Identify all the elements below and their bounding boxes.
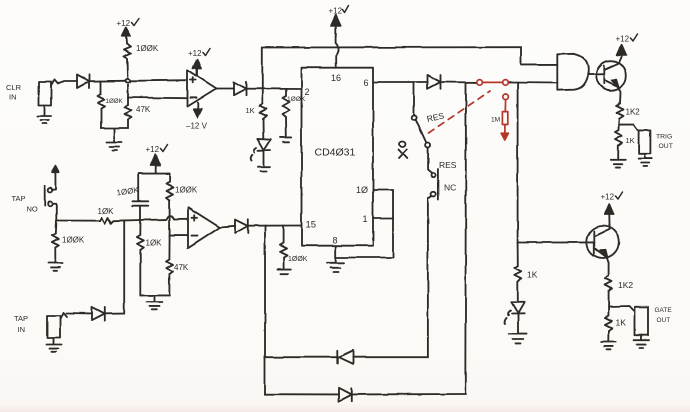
wire (divider bottom rail) [140,295,169,301]
op-amp U3 plus sign [192,215,198,221]
svg-text:2: 2 [305,87,310,97]
diode D3 [428,75,441,89]
svg-text:CD4Ø31: CD4Ø31 [315,147,356,159]
svg-text:CLR: CLR [6,83,22,92]
svg-text:+12: +12 [146,145,160,154]
red arrow (to ground/CV) [501,133,508,140]
wire (pin 6 to diode D3) [373,81,428,83]
ground (R5) [281,137,292,142]
op-amp U3 minus sign [192,235,198,237]
wire (Q2 base wire) [518,241,595,243]
svg-text:OUT: OUT [659,143,673,150]
diode D5 (points left) [337,350,353,364]
svg-text:+12: +12 [329,7,343,16]
wire (J1 to D1) [58,81,77,83]
wire (junction down to feedback diode D6 net) [464,82,467,394]
transistor Q2 [587,226,619,258]
jack J3 TRIG OUT [639,130,651,153]
op-amp U3 [188,207,220,248]
svg-text:IN: IN [18,325,26,334]
checkmark V (Q1 +12V) [631,34,638,41]
ground (J2) [47,338,62,352]
red wire (R17 down) [504,125,506,134]
diode D2 [234,82,247,95]
pushbutton SW2 RES NC [431,169,438,200]
ground (R7) [48,263,63,271]
ground (R15) [601,342,616,350]
svg-text:1K: 1K [626,136,635,145]
svg-text:47K: 47K [136,105,151,114]
diode D1 [77,75,90,89]
wire (SW1 to pushbutton SW2) [428,148,432,173]
resistor R6 100K (pin 15 net to gnd) [280,226,287,269]
ground (under J1) [38,105,52,124]
resistor R9 100K (rail to minus node) [166,174,173,236]
wire (node to GATE jack tip) [609,306,634,311]
resistor R11 10K (tap node to bottom rail) [137,220,144,295]
wire (Q1 emitter down) [618,86,621,103]
svg-text:1ØØK: 1ØØK [288,256,308,263]
svg-text:1ØØK: 1ØØK [175,186,198,195]
ground (divider) [147,302,163,310]
svg-text:+12: +12 [117,19,131,28]
+12V supply arrow (pin 16) [331,15,341,36]
ground (pin 8) [328,263,345,272]
svg-text:NO: NO [27,205,38,214]
pushbutton SW3 TAP NO [45,166,59,221]
resistor R15 1K (node to gnd) [605,307,612,342]
wire (long top wire to AND gate step) [262,46,521,48]
svg-text:15: 15 [306,220,317,231]
svg-text:OUT: OUT [657,317,671,324]
+12V supply arrow (divider rail) [151,154,160,173]
resistor R2 100K (node A to gnd rail) [98,81,105,128]
checkmark V (Q2 +12V) [616,192,623,199]
wire (pin 10 to joining vertical) [373,189,393,191]
svg-text:1ØØK: 1ØØK [136,44,159,53]
wire (U1 out to D2) [217,88,234,90]
AND gate U4 [557,54,588,90]
wire (D4 to IC pin 15) [248,225,302,227]
wire (node to long feedforward wire corner) [261,48,263,89]
resistor R7 100K (tap node to gnd) [52,221,59,263]
wire (minus input wire) [128,97,188,100]
checkmark V (U1 +12V) [203,49,210,56]
ground (J3) [638,154,652,167]
ground (J4) [635,335,649,348]
red switch contact circle (right) [503,80,509,86]
svg-text:+12: +12 [616,35,630,44]
svg-text:8: 8 [333,236,338,246]
wire (U3 minus input) [170,235,188,237]
resistor R10 47K (minus node to bottom rail) [166,236,173,296]
svg-text:1K2: 1K2 [618,280,633,290]
resistor R16 1K (Q2 base node to LED2) [514,243,521,302]
wire (Q1 collector riser) [619,48,622,64]
wire (gnd rail R2/R3) [101,128,128,141]
svg-text:1ØØK: 1ØØK [106,98,124,105]
-12V supply arrow (U1) [194,103,202,118]
wire (D1 to node A and opamp U1 +) [90,80,188,81]
transistor Q1 [596,61,626,91]
wire (C1 to tap wire node) [140,206,142,220]
jack J4 GATE OUT [635,307,648,335]
svg-text:1K: 1K [616,318,627,328]
svg-text:GATE: GATE [655,307,673,314]
wire (U3 out to D4) [220,226,235,227]
svg-text:1K2: 1K2 [626,108,641,117]
svg-text:1: 1 [363,214,368,224]
checkmark V (pin16 +12V) [343,6,349,13]
svg-text:RES: RES [439,160,457,170]
wire (node A down to minus wire and 47K) [127,85,129,98]
wire (pin 1 to joining vertical) [373,217,393,219]
no-connection stub X [399,141,407,159]
svg-text:IN: IN [9,93,17,102]
svg-text:1K: 1K [246,106,255,115]
wire (hop to U3 plus input) [174,218,188,220]
wire (Q2 collector riser) [608,212,611,229]
resistor R12 1K2 (Q1 emitter) [617,104,624,125]
wire (R8 to cap node, with junction to TAP IN) [114,220,167,221]
resistor R4 1K (node to LED1) [260,89,267,138]
LED LED1 [251,138,271,165]
svg-text:1ØØK: 1ØØK [287,96,306,103]
svg-text:1M: 1M [491,117,500,124]
+12V supply arrow (U1) [193,60,201,76]
IC U2 CD4031 body [302,68,374,246]
wire (feedback 2 horizontal) [265,393,465,395]
wire (Q2 emitter down) [607,257,609,276]
wire (D3 to red switch contact) [441,81,477,83]
svg-text:47K: 47K [174,263,189,272]
red wire (contact to resistor R17) [504,100,506,112]
checkmark V (R1 +12V) [132,19,140,26]
svg-text:1ØK: 1ØK [98,207,115,216]
wire (feedback 2 vertical left) [264,357,266,394]
wire (hop over divider chain) [166,216,174,220]
svg-text:1ØK: 1ØK [146,239,163,248]
wire (pin 16 stem with hop over top wire) [336,36,339,68]
svg-text:NC: NC [444,183,456,193]
resistor R17 1M (red, box style) [502,112,507,125]
checkmark V (divider +12V) [161,145,168,152]
red dashed link (switch gang) [429,91,491,133]
svg-text:6: 6 [364,78,369,88]
node A junction loop [125,79,131,83]
wire (jack J2 to D7) [66,313,92,315]
op-amp U1 [188,70,217,107]
wire (feedback 1 horizontal) [265,356,428,358]
jack J2 TAP IN [48,313,67,338]
+12V supply arrow (Q1) [617,45,626,55]
resistor R1 100K (node A to +12V) [124,36,131,77]
op-amp U1 minus sign [191,97,197,99]
resistor R3 47K (minus node to gnd rail) [125,98,132,129]
ground (LED2) [509,334,526,344]
wire (SW2 down to feedback diode D5 net) [428,196,432,358]
wire (pin 8 stem) [335,246,337,262]
switch SW1 RES (rotary/toggle) pole [412,82,430,147]
jack J1 CLR IN [39,80,59,106]
wire (gate output to Q1 base) [588,73,604,75]
wire (D2 to IC pin 2, through nodes) [246,88,302,90]
wire (after red switch to gate lower input) [508,82,557,85]
svg-text:1K: 1K [527,270,538,280]
svg-text:TAP: TAP [14,314,28,323]
wire (node to TRIG jack tip) [619,125,638,130]
op-amp U1 plus sign [191,77,197,83]
LED LED2 [505,302,525,333]
svg-text:TRIG: TRIG [656,134,672,141]
wire (junction down to Q2 base node) [517,83,519,243]
+12V supply arrow (Q2) [604,204,613,214]
wire (pins 10+1 vertical to gnd link) [336,190,393,258]
wire (tap node to R8) [56,220,100,222]
diode D7 [92,307,105,320]
svg-text:1Ø: 1Ø [356,185,368,195]
capacitor C1 [133,201,149,205]
wire (pin15 node down to feedback wires) [264,226,266,358]
ground (R6) [278,270,292,275]
svg-text:16: 16 [331,73,341,83]
red wire (between contacts) [482,81,502,83]
svg-text:+12: +12 [601,193,615,202]
diode D4 [235,219,248,233]
resistor R14 1K2 (Q2 emitter) [605,276,612,307]
red switch contact circle (1M top) [503,94,509,100]
wire (divider top rail) [139,173,170,175]
svg-text:TAP: TAP [12,194,26,203]
svg-text:+12: +12 [188,49,202,58]
wire (TAP IN riser) [123,220,125,313]
wire (step down to gate upper input) [521,47,557,65]
resistor R5 100K (pin2 net to gnd) [283,89,290,136]
wire (rail down to cap C1) [139,174,141,201]
wire (D7 to riser) [106,313,125,315]
ground (R2/R3 rail) [107,142,122,150]
ground (R13) [611,160,626,168]
diode D6 (points right) [339,388,352,401]
+12V supply arrow (R1) [122,28,130,37]
resistor R13 1K (node to gnd) [615,125,622,159]
ground (LED1) [258,167,270,171]
svg-text:–12 V: –12 V [186,122,208,131]
svg-text:1ØØK: 1ØØK [62,236,85,245]
resistor R8 10K (horizontal) [100,218,114,224]
red switch contact circle (left) [477,80,483,86]
